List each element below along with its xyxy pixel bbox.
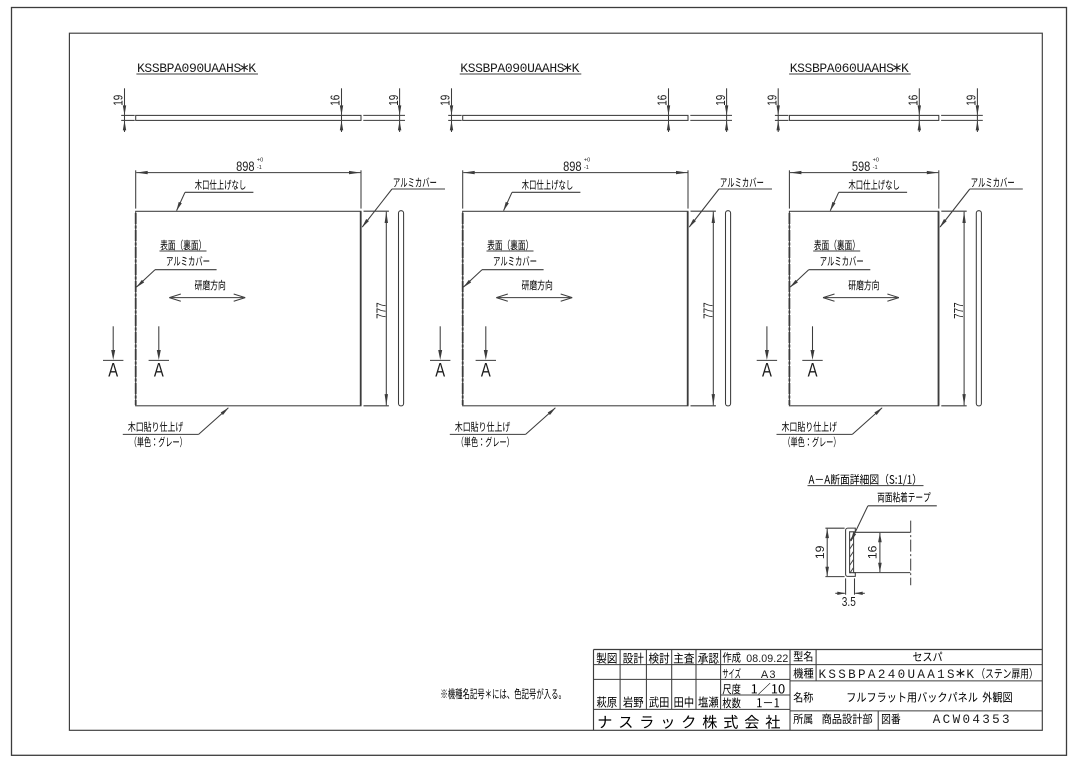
svg-text:A: A	[481, 360, 491, 381]
svg-text:-1: -1	[584, 165, 589, 171]
svg-text:898: 898	[563, 158, 581, 175]
svg-text:ACW04353: ACW04353	[933, 713, 1012, 727]
svg-text:3.5: 3.5	[842, 596, 856, 609]
svg-text:898: 898	[236, 158, 254, 175]
svg-text:19: 19	[813, 545, 827, 559]
svg-text:19: 19	[964, 95, 979, 106]
svg-text:777: 777	[701, 302, 716, 319]
svg-text:777: 777	[952, 302, 967, 319]
svg-text:16: 16	[866, 545, 880, 559]
svg-text:-1: -1	[873, 165, 878, 171]
svg-text:19: 19	[765, 95, 780, 106]
svg-text:-1: -1	[257, 165, 262, 171]
svg-text:598: 598	[852, 158, 870, 175]
svg-text:16: 16	[906, 95, 921, 106]
svg-text:A: A	[808, 360, 818, 381]
svg-text:19: 19	[111, 95, 126, 106]
svg-text:19: 19	[713, 95, 728, 106]
svg-text:777: 777	[374, 302, 389, 319]
svg-text:19: 19	[386, 95, 401, 106]
svg-text:+0: +0	[873, 158, 879, 164]
svg-text:16: 16	[328, 95, 343, 106]
svg-text:KSSBPA240UAA1S: KSSBPA240UAA1S	[819, 668, 957, 682]
svg-text:K: K	[966, 668, 976, 682]
svg-text:A: A	[435, 360, 445, 381]
svg-text:A: A	[154, 360, 164, 381]
svg-text:A: A	[108, 360, 118, 381]
svg-text:A3: A3	[761, 669, 777, 681]
svg-text:A: A	[762, 360, 772, 381]
svg-text:19: 19	[438, 95, 453, 106]
svg-text:16: 16	[655, 95, 670, 106]
svg-text:+0: +0	[257, 158, 263, 164]
svg-text:08.09.22: 08.09.22	[746, 653, 788, 665]
svg-text:+0: +0	[584, 158, 590, 164]
